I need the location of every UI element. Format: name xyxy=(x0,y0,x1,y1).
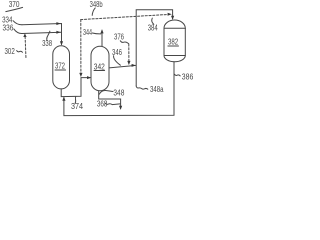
svg-text:372: 372 xyxy=(55,62,65,71)
label 368 xyxy=(97,99,108,108)
leader 338 xyxy=(47,31,50,40)
svg-text:376: 376 xyxy=(114,32,124,41)
squiggle leader 376 xyxy=(120,41,128,44)
label 348a xyxy=(150,85,164,94)
wire 334 xyxy=(22,24,62,45)
arrow on wire 334 xyxy=(56,22,60,25)
svg-text:336: 336 xyxy=(3,24,14,33)
leader 384 xyxy=(152,18,154,24)
svg-text:348: 348 xyxy=(113,89,124,98)
dashed recycle 348b vertical branch xyxy=(80,20,82,75)
wire 372 bottoms to vessel 342 (stream 374) xyxy=(61,78,90,97)
arrow 344 up xyxy=(100,29,103,33)
arrow into vessel 342 left side xyxy=(87,76,91,79)
svg-text:344: 344 xyxy=(83,28,92,37)
wire 344 overhead xyxy=(101,30,103,46)
label 336 xyxy=(3,24,14,33)
leader 346 xyxy=(114,56,121,65)
label 334 xyxy=(2,16,13,25)
dashed stream 376 xyxy=(128,44,130,63)
svg-text:342: 342 xyxy=(94,62,105,71)
arrow into vessel 372 top xyxy=(60,41,63,45)
svg-text:348a: 348a xyxy=(150,85,164,94)
arrow 376 down onto wire 346 xyxy=(127,61,130,65)
leader 348 xyxy=(99,90,113,94)
vessel 342 xyxy=(91,46,109,91)
leader 336 xyxy=(14,29,22,34)
riser wire 348a up to vessel 382 xyxy=(136,10,172,86)
svg-text:348b: 348b xyxy=(90,0,103,9)
arrow recycle up into wire 374 xyxy=(62,97,65,101)
svg-text:386: 386 xyxy=(182,72,194,81)
leader 348a squiggle xyxy=(136,86,148,89)
leader 334 xyxy=(13,21,22,25)
label 372 xyxy=(55,62,65,71)
figure number 370 xyxy=(9,0,20,9)
figure number underline xyxy=(6,7,23,11)
vessel 382 top head xyxy=(164,20,185,28)
leader 344 xyxy=(92,32,101,35)
label 382 xyxy=(168,38,179,47)
squiggle leader 368 xyxy=(105,103,120,105)
arrow of 348b branch into feed junction xyxy=(79,73,82,77)
leader 374 xyxy=(74,97,77,104)
label 374 xyxy=(71,102,83,111)
label 338 xyxy=(42,39,52,48)
vessel 372 xyxy=(53,46,70,89)
dashed stream 302 xyxy=(24,36,27,59)
arrow into vessel 382 top xyxy=(171,16,174,20)
underline 372 xyxy=(55,69,66,71)
label 302 xyxy=(5,47,16,56)
squiggle leader 386 xyxy=(174,74,180,76)
wire 386 bottoms recycle xyxy=(64,62,174,116)
dashed recycle 348b horizontal xyxy=(81,14,170,19)
vessel 382 shell xyxy=(164,28,185,55)
label 348b xyxy=(90,0,103,9)
underline 382 xyxy=(168,45,179,47)
arrow of 348b into line to vessel 382 xyxy=(168,13,172,16)
label 348 xyxy=(113,89,124,98)
label 386 xyxy=(182,72,194,81)
arrow on wire 336 xyxy=(56,31,60,34)
label 344 xyxy=(83,28,92,37)
label 384 xyxy=(148,24,158,33)
vessel 382 bottom head xyxy=(164,56,185,62)
arrow 346 into riser xyxy=(132,64,136,67)
label 346 xyxy=(112,48,122,57)
arrow of stream 302 joining wire 336 xyxy=(23,33,26,37)
svg-text:382: 382 xyxy=(168,38,179,47)
svg-text:370: 370 xyxy=(9,0,20,9)
wire 336 xyxy=(22,32,62,33)
wire 368: vessel 342 bottoms to recycle line xyxy=(99,91,121,109)
leader 348b xyxy=(92,8,95,15)
squiggle leader 302 xyxy=(17,51,23,53)
svg-text:302: 302 xyxy=(5,47,16,56)
arrow 368 down into recycle line xyxy=(119,106,122,110)
label 342 xyxy=(94,62,105,71)
underline 342 xyxy=(94,70,105,72)
svg-text:384: 384 xyxy=(148,24,158,33)
svg-text:374: 374 xyxy=(71,102,83,111)
label 376 xyxy=(114,32,124,41)
wire 346 to riser xyxy=(109,65,136,68)
